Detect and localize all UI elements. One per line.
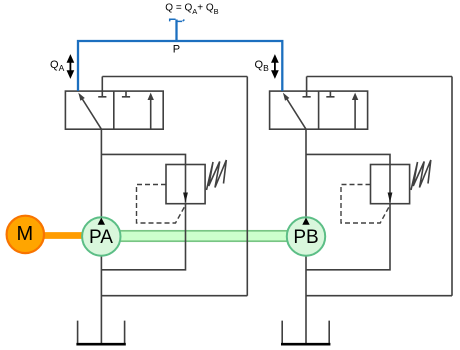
svg-text:P: P <box>173 44 180 56</box>
pump PA suction line to tank <box>100 256 102 344</box>
valve V2 blocked port T1 <box>303 77 311 97</box>
valve V2 up arrowhead <box>352 93 358 100</box>
tank return line right (unit A) <box>246 77 248 296</box>
valve V1 body <box>65 91 163 129</box>
relief valve RV2 spring <box>411 160 431 190</box>
shaft coupling PA to PB (green bar) <box>101 231 306 241</box>
valve V1 blocked port T2 <box>122 91 130 97</box>
valve V2 diagonal arrowhead <box>283 93 290 101</box>
branch to relief valve RV2 <box>306 154 390 164</box>
relief valve RV1 internal arrow shaft <box>185 165 187 203</box>
svg-text:M: M <box>16 223 33 245</box>
valve V2 blocked port T2 <box>326 91 334 97</box>
relief valve RV2 internal arrow shaft <box>389 165 391 203</box>
valve V2 cell divider <box>318 91 320 129</box>
pump PA outlet triangle <box>98 218 105 225</box>
tank return line top (unit A) <box>102 76 247 78</box>
relief valve RV2 arrowhead <box>388 193 393 203</box>
motor M symbol <box>7 216 44 253</box>
valve V1 up arrowhead <box>148 93 154 100</box>
branch to relief valve RV1 <box>101 154 185 164</box>
tank return line top (unit B) <box>307 76 452 78</box>
relief valve RV1 spring <box>207 160 227 190</box>
relief valve RV2 outlet line <box>306 204 390 270</box>
svg-text:PA: PA <box>89 227 113 248</box>
pump PA outlet line <box>100 129 102 218</box>
relief valve RV1 body <box>166 165 205 204</box>
valve V1 blocked port T1 <box>98 77 106 97</box>
tank return line right (unit B) <box>451 77 453 296</box>
valve V2 body <box>270 91 368 129</box>
valve V2 up arrow shaft <box>354 100 356 130</box>
valve V1 up arrow shaft <box>150 100 152 130</box>
relief valve RV2 body <box>371 165 410 204</box>
flow arrow QB (double-headed) <box>274 61 276 73</box>
drive shaft M to PA (orange bar) <box>25 232 101 239</box>
relief valve RV2 pilot line (dashed) <box>341 185 390 224</box>
pressure line P (blue) <box>78 41 282 91</box>
flow summation brace (blue curly) <box>170 19 185 21</box>
flow arrow QA (double-headed) <box>69 61 71 73</box>
pump PB suction line to tank <box>305 256 307 344</box>
tank T1 bottom <box>76 343 125 346</box>
valve V1 diagonal arrowhead <box>78 93 85 101</box>
svg-text:PB: PB <box>293 227 318 248</box>
tank T1 walls <box>78 321 125 344</box>
relief valve RV1 outlet line <box>101 204 185 270</box>
relief valve RV1 pilot line (dashed) <box>137 185 186 224</box>
tank T2 walls <box>282 321 329 344</box>
tank return line bottom (unit B) <box>306 295 452 297</box>
pump PB outlet triangle <box>302 218 309 225</box>
valve V1 flow arrow (diagonal) <box>82 99 101 130</box>
valve V1 cell divider <box>113 91 115 129</box>
tank return line bottom (unit A) <box>101 295 247 297</box>
pump PA symbol <box>82 217 120 255</box>
valve V2 flow arrow (diagonal) <box>287 99 306 130</box>
relief valve RV1 arrowhead <box>183 193 188 203</box>
pump PB outlet line <box>305 129 307 218</box>
tank T2 bottom <box>281 343 330 346</box>
node P stub (blue) <box>175 20 177 42</box>
pump PB symbol <box>287 217 325 255</box>
